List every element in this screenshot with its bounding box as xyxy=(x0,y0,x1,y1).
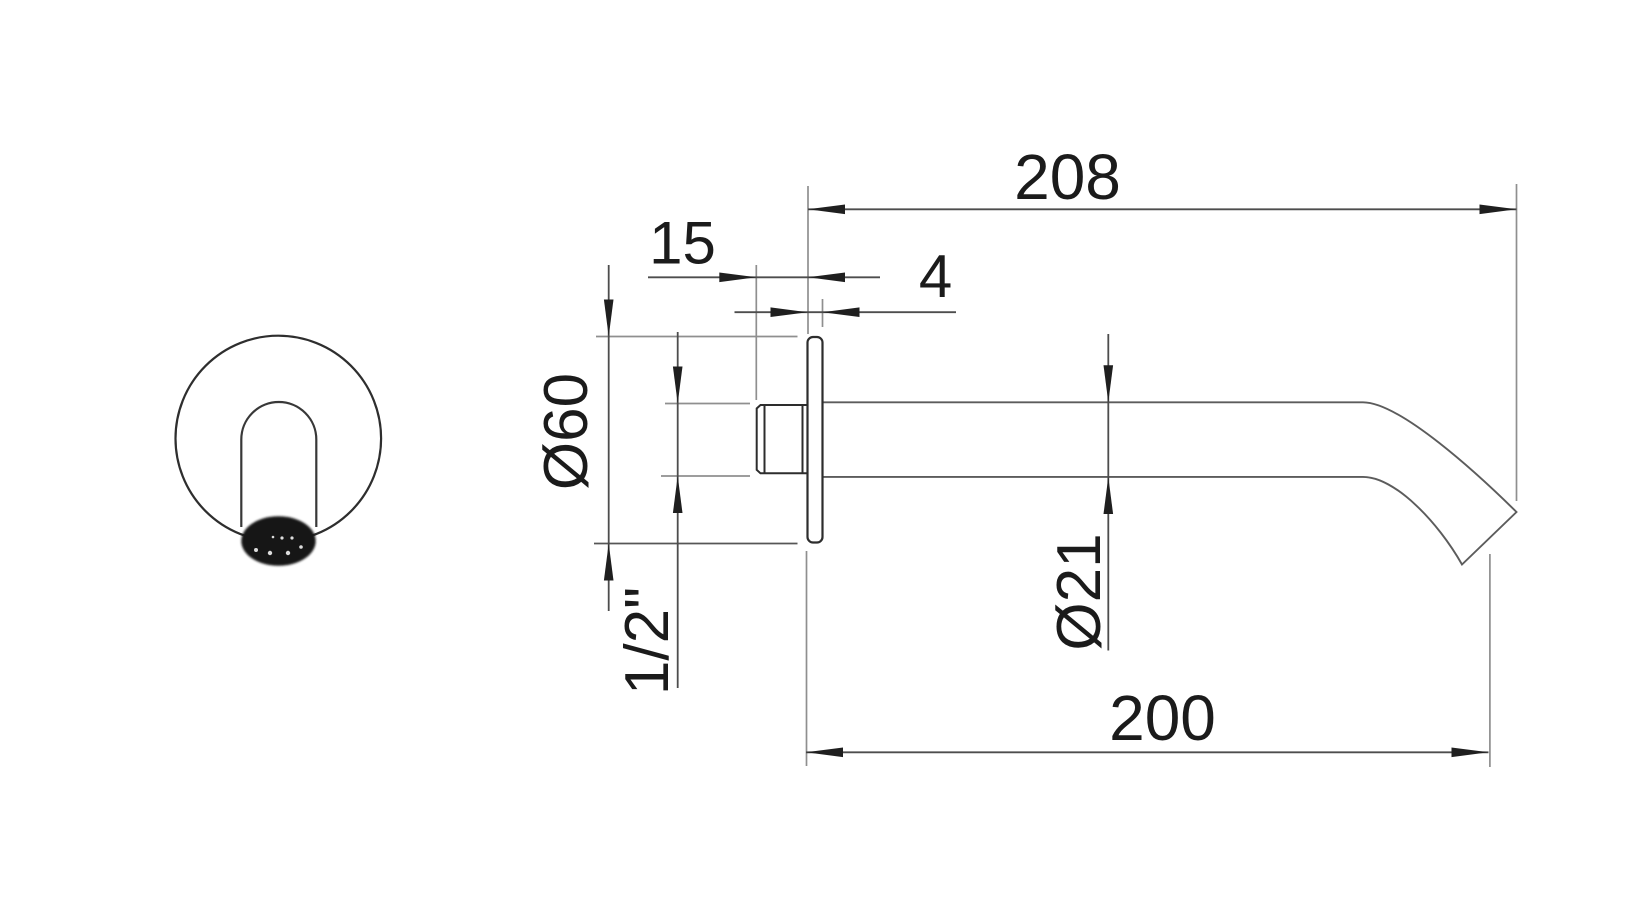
svg-text:208: 208 xyxy=(1014,141,1121,213)
svg-text:1/2": 1/2" xyxy=(613,587,682,695)
svg-text:4: 4 xyxy=(919,243,952,310)
svg-text:Ø60: Ø60 xyxy=(532,373,601,490)
svg-text:200: 200 xyxy=(1109,682,1216,754)
svg-text:Ø21: Ø21 xyxy=(1045,533,1114,650)
svg-text:15: 15 xyxy=(649,210,716,277)
